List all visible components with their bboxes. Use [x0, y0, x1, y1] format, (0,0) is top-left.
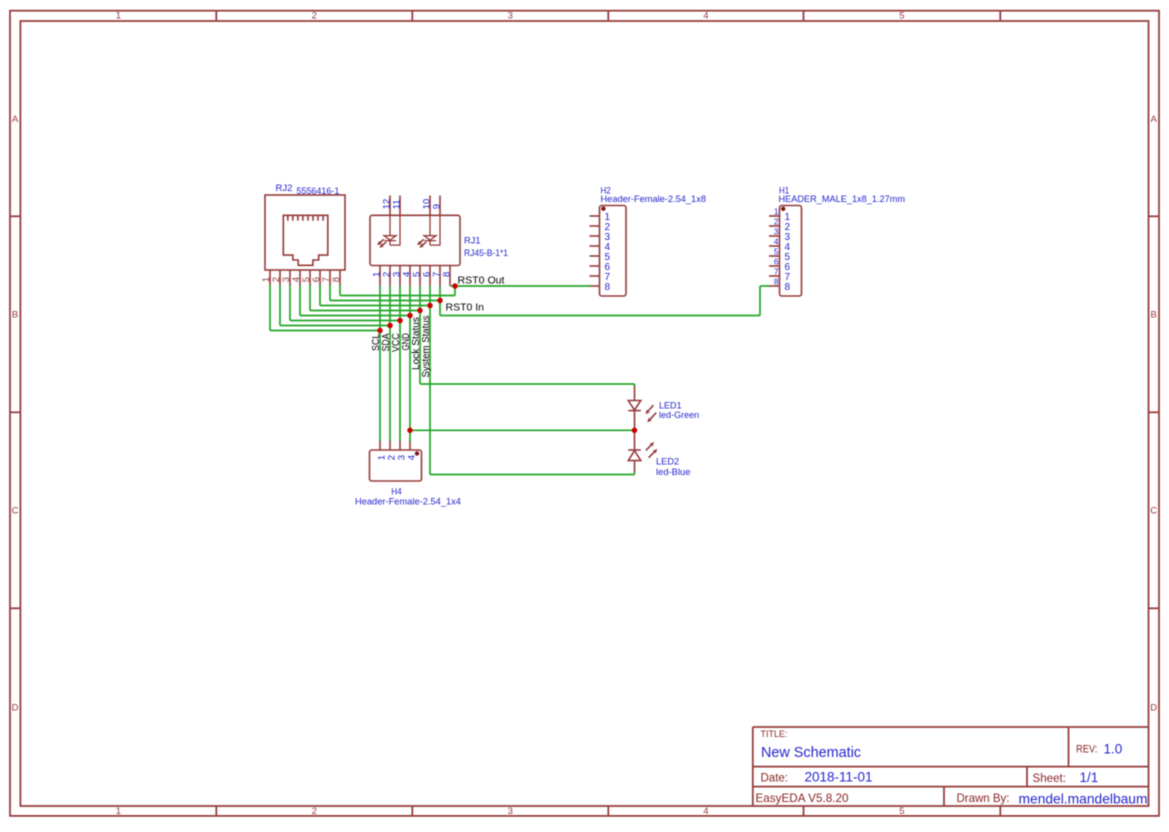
svg-text:A: A [12, 114, 19, 125]
svg-text:1: 1 [116, 11, 121, 22]
svg-text:Header-Female-2.54_1x4: Header-Female-2.54_1x4 [355, 497, 461, 507]
wire LED midpoint horizontal [410, 429, 635, 431]
svg-text:Drawn By:: Drawn By: [957, 791, 1010, 805]
svg-text:8: 8 [774, 277, 779, 287]
wire net RST0 In horizontal [440, 315, 760, 317]
wire vertical SCL [379, 286, 381, 441]
svg-text:4: 4 [774, 237, 779, 247]
wire bus row 3 horizontal [290, 320, 400, 322]
svg-text:B: B [12, 310, 18, 321]
wire Lock Status horizontal to LED1 [420, 383, 635, 385]
svg-text:RST0 Out: RST0 Out [458, 275, 505, 287]
RJ1 bottom pins 1-8 [380, 266, 450, 287]
wire stub to H1 pin 8 [760, 285, 769, 287]
LED LED2 led-Blue [628, 433, 690, 477]
svg-text:6: 6 [774, 257, 779, 267]
junction node at (455,286) [452, 283, 458, 289]
junction node at (390,325.5) [387, 323, 393, 329]
wire bus row 1 horizontal [270, 330, 380, 332]
wire vertical SDA [389, 286, 391, 441]
wire RST0 In riser to H1 [759, 286, 761, 316]
RJ2 pins 1-8 [270, 270, 340, 286]
junction node at (400,320.5) [397, 318, 403, 324]
svg-text:RST0 In: RST0 In [446, 302, 485, 314]
wire System Status horizontal to LED2 [430, 474, 635, 476]
wire bus row 4 horizontal [300, 315, 410, 317]
wire vertical VCC [399, 286, 401, 441]
svg-text:2: 2 [312, 11, 317, 22]
svg-text:4: 4 [703, 11, 708, 22]
svg-text:1: 1 [774, 207, 779, 217]
svg-text:TITLE:: TITLE: [761, 729, 788, 740]
wire vertical Lock Status [419, 286, 421, 384]
wire RJ2 pin 1 to bus row [269, 285, 271, 331]
wire bus row 2 horizontal [280, 325, 390, 327]
wire RJ2 pin 6 to bus row [319, 285, 321, 306]
title block text [756, 729, 1148, 806]
connector RJ1 RJ45-B-1*1 [370, 215, 460, 265]
svg-text:mendel.mandelbaum: mendel.mandelbaum [1019, 791, 1148, 806]
wire LED2 anode stub [634, 472, 636, 475]
wire LED1 cathode to junction [634, 428, 636, 434]
svg-text:EasyEDA V5.8.20: EasyEDA V5.8.20 [756, 791, 849, 805]
wire bus row 7 horizontal [330, 300, 440, 302]
svg-text:RJ1: RJ1 [464, 236, 481, 246]
svg-text:led-Blue: led-Blue [656, 467, 691, 477]
svg-text:5: 5 [899, 11, 904, 22]
svg-text:RJ2: RJ2 [276, 183, 293, 193]
svg-text:A: A [1151, 114, 1158, 125]
junction node at (410,430.3) [407, 428, 413, 434]
wire RJ2 pin 7 to bus row [329, 285, 331, 301]
svg-text:LED2: LED2 [656, 456, 679, 466]
svg-text:Sheet:: Sheet: [1033, 773, 1067, 785]
wire RJ2 pin 2 to bus row [279, 285, 281, 326]
svg-text:C: C [1150, 506, 1157, 517]
wire RJ2 pin 4 to bus row [299, 285, 301, 316]
svg-text:1: 1 [116, 806, 121, 817]
svg-text:D: D [1150, 702, 1157, 713]
svg-text:3: 3 [508, 11, 513, 22]
header H2 Header-Female-2.54_1x8 [590, 206, 627, 297]
svg-text:REV:: REV: [1076, 743, 1098, 755]
svg-text:8: 8 [441, 272, 452, 277]
RJ1 internal LED B (pins 10-9) [417, 215, 441, 248]
svg-text:1/1: 1/1 [1080, 770, 1099, 785]
svg-text:B: B [1151, 310, 1157, 321]
svg-text:8: 8 [785, 282, 791, 293]
svg-text:2: 2 [774, 217, 779, 227]
svg-text:5: 5 [899, 806, 904, 817]
wire riser to RST0 Out [454, 286, 456, 296]
svg-text:3: 3 [508, 806, 513, 817]
wire vertical System Status [429, 286, 431, 475]
svg-text:8: 8 [605, 282, 611, 293]
svg-text:New Schematic: New Schematic [761, 745, 861, 761]
wire bus row 8 horizontal [340, 295, 455, 297]
svg-text:2: 2 [312, 806, 317, 817]
svg-text:3: 3 [774, 227, 779, 237]
header H4 Header-Female-2.54_1x4 [370, 441, 422, 481]
svg-text:5556416-1: 5556416-1 [297, 186, 340, 196]
LED LED1 led-Green [628, 385, 699, 428]
svg-text:C: C [12, 506, 19, 517]
RJ1 top pins 12 11 10 9 [390, 196, 440, 216]
svg-text:Header-Female-2.54_1x8: Header-Female-2.54_1x8 [601, 194, 707, 204]
svg-text:1.0: 1.0 [1104, 741, 1123, 756]
svg-text:RJ45-B-1*1: RJ45-B-1*1 [464, 248, 508, 258]
junction node at (420,310.5) [417, 308, 423, 314]
connector RJ2 5556416-1 [265, 195, 345, 270]
svg-text:11: 11 [391, 199, 402, 209]
title block [753, 727, 1149, 806]
wire net RST0 Out [450, 285, 590, 287]
wire vertical RST0 In drop [439, 286, 441, 316]
wire vertical GND [409, 286, 411, 441]
svg-text:D: D [12, 702, 19, 713]
junction node at (410,315.5) [407, 313, 413, 319]
svg-text:8: 8 [331, 277, 342, 282]
svg-text:2018-11-01: 2018-11-01 [805, 770, 873, 785]
svg-text:HEADER_MALE_1x8_1.27mm: HEADER_MALE_1x8_1.27mm [779, 194, 906, 204]
junction node at (634.5,430.3) [632, 428, 638, 434]
svg-text:Date:: Date: [761, 772, 789, 784]
svg-text:5: 5 [774, 247, 779, 257]
RJ1 internal LED A (pins 12-11) [377, 215, 401, 248]
junction node at (440,300.5) [437, 298, 443, 304]
svg-text:4: 4 [703, 806, 708, 817]
svg-text:led-Green: led-Green [659, 410, 699, 420]
wire RJ2 pin 3 to bus row [289, 285, 291, 321]
header H1 HEADER_MALE_1x8_1.27mm [769, 206, 802, 297]
svg-text:9: 9 [431, 204, 442, 209]
wire LED1 top stub [634, 384, 636, 386]
wire bus row 5 horizontal [310, 310, 420, 312]
svg-text:H4: H4 [391, 487, 402, 497]
junction node at (380,330.5) [377, 328, 383, 334]
junction node at (430,305.5) [427, 303, 433, 309]
svg-text:4: 4 [406, 455, 417, 460]
wire RJ2 pin 8 to bus row [339, 285, 341, 296]
svg-text:System Status: System Status [420, 316, 432, 378]
wire RJ2 pin 5 to bus row [309, 285, 311, 311]
svg-text:7: 7 [774, 267, 779, 277]
wire bus row 6 horizontal [320, 305, 430, 307]
